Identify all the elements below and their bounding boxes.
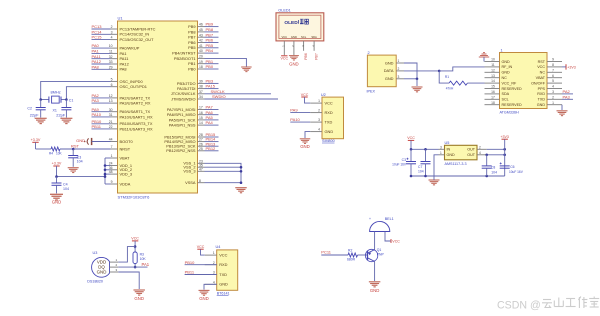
svg-text:3: 3: [440, 145, 442, 149]
svg-text:9: 9: [111, 180, 113, 184]
svg-text:10: 10: [491, 58, 495, 62]
pin GND (4) of U4: [205, 280, 228, 286]
capacitor C8 104: [486, 155, 488, 166]
svg-text:GND: GND: [289, 61, 299, 66]
inductor R1 47nH: [449, 81, 467, 85]
svg-text:PA11: PA11: [92, 54, 102, 59]
svg-text:VCC: VCC: [219, 252, 227, 257]
svg-text:PA4: PA4: [206, 120, 214, 125]
wire VCC to R3: [134, 241, 136, 249]
svg-text:5: 5: [552, 79, 554, 83]
svg-text:2: 2: [479, 145, 481, 149]
wire C1 to ground: [65, 110, 67, 118]
wire net PB8: [205, 31, 219, 33]
wire net PA8: [92, 68, 111, 70]
svg-text:PB0: PB0: [206, 64, 214, 69]
svg-text:PB5: PB5: [188, 45, 195, 50]
pin DATA (2) of IPEX: [384, 67, 404, 73]
wire net PB12: [205, 150, 219, 152]
svg-text:TXD: TXD: [325, 119, 333, 124]
wire net PA12: [92, 63, 111, 65]
svg-text:15: 15: [199, 116, 203, 120]
junction OUT1: [503, 148, 506, 151]
svg-text:9: 9: [552, 58, 554, 62]
pin PA10/USART1_RX (31) of U1: [109, 113, 153, 119]
svg-text:27: 27: [199, 138, 203, 142]
svg-text:GND: GND: [447, 153, 456, 157]
wire U2 GND: [305, 132, 310, 138]
svg-text:OLED1: OLED1: [278, 8, 290, 12]
junction rail C7: [424, 175, 427, 178]
svg-text:+3.3V: +3.3V: [31, 138, 41, 142]
svg-text:VCC_RF: VCC_RF: [502, 81, 517, 85]
svg-text:12: 12: [109, 94, 113, 98]
svg-text:SDA: SDA: [502, 92, 510, 96]
wire net PB6: [205, 42, 219, 44]
wire net PA3: [92, 102, 111, 104]
pin GND (4) of U2: [310, 128, 333, 134]
svg-text:7: 7: [552, 68, 554, 72]
svg-text:PA12: PA12: [120, 61, 129, 66]
wire SWDIO: [205, 98, 279, 100]
svg-text:VCC: VCC: [197, 245, 205, 249]
resistor R3 10K: [133, 247, 137, 268]
junction rail C8: [485, 175, 488, 178]
svg-text:VCC: VCC: [131, 237, 139, 241]
svg-text:RST: RST: [538, 60, 546, 64]
wire VSS bus to ground: [205, 163, 242, 182]
svg-text:VDD_3: VDD_3: [120, 172, 133, 177]
svg-text:PB8: PB8: [188, 29, 195, 34]
svg-text:1: 1: [440, 151, 442, 155]
svg-text:8MHz: 8MHz: [51, 90, 61, 95]
svg-text:1: 1: [213, 251, 215, 255]
svg-text:PA3: PA3: [92, 98, 100, 103]
pin PB7 (43) of U1: [188, 33, 204, 39]
pin GND (1) of U5: [439, 151, 456, 157]
svg-text:26: 26: [199, 142, 203, 146]
junction IPEX GND: [416, 78, 419, 81]
svg-text:13: 13: [491, 74, 495, 78]
svg-text:PB10: PB10: [185, 260, 196, 265]
ground at IPEX: [412, 87, 423, 92]
svg-text:U2: U2: [321, 93, 326, 97]
wire crystal left: [41, 99, 49, 101]
svg-text:RESERVED: RESERVED: [502, 87, 523, 91]
wire L1 to VCC_RF: [467, 82, 484, 84]
pin VSS_2 (35) of U1: [183, 163, 204, 169]
svg-text:22pF: 22pF: [56, 112, 65, 117]
ground at C1: [60, 118, 72, 123]
pin VCC (8) of GPS: [537, 63, 562, 69]
pin SCL (17) of GPS: [485, 95, 509, 101]
svg-text:SCL: SCL: [301, 35, 307, 39]
wire net PB14: [205, 141, 219, 143]
svg-text:5: 5: [111, 78, 113, 82]
OLED module body: [276, 13, 324, 41]
svg-text:42: 42: [199, 39, 203, 43]
ground at VSS: [235, 188, 247, 193]
svg-text:GND: GND: [76, 138, 85, 143]
svg-text:GND: GND: [325, 129, 334, 134]
buzzer BEL1: [370, 221, 390, 231]
svg-text:DS18B20: DS18B20: [87, 279, 103, 283]
connector IPEX body: [367, 55, 396, 87]
svg-text:14: 14: [199, 121, 203, 125]
svg-text:33: 33: [109, 60, 113, 64]
svg-text:104: 104: [491, 170, 497, 174]
ground at GPS GND: [557, 111, 568, 116]
svg-text:VBAT: VBAT: [120, 155, 130, 160]
svg-text:GND: GND: [199, 296, 209, 301]
svg-text:U3: U3: [93, 251, 98, 255]
junction VSS_2: [240, 166, 243, 169]
ground at OLED: [289, 56, 299, 60]
svg-text:U1: U1: [118, 16, 124, 21]
capacitor C2: [36, 107, 46, 109]
pin BOOT0 (44) of U1: [109, 138, 134, 144]
svg-text:OUT: OUT: [467, 148, 476, 152]
svg-text:104: 104: [418, 169, 424, 173]
pin VBAT (6) of GPS: [536, 74, 562, 80]
op U1 body: [118, 21, 198, 193]
ground at GPS pin10: [479, 53, 489, 57]
junction VSSA: [240, 181, 243, 184]
pin PA7/SPI1_MOSI (17) of U1: [167, 106, 205, 112]
pin PC14/OSC32_IN (3) of U1: [111, 30, 150, 36]
pin OUT (2) of U5: [467, 145, 486, 151]
wire BOOT0: [92, 141, 111, 143]
svg-text:3: 3: [552, 90, 554, 94]
svg-text:R2: R2: [348, 248, 352, 252]
svg-text:PB4: PB4: [206, 48, 214, 53]
svg-text:8: 8: [552, 63, 554, 67]
pin RF_IN (11) of GPS: [485, 63, 513, 69]
svg-text:18: 18: [199, 65, 203, 69]
wire PB2/BOOT1 to ground: [205, 58, 247, 67]
svg-text:PA8: PA8: [120, 67, 127, 72]
svg-text:RXD: RXD: [325, 110, 333, 115]
svg-text:OLED: OLED: [284, 20, 298, 26]
capacitor C6 10uF: [500, 165, 510, 167]
pin PA15/JTDI (38) of U1: [177, 85, 205, 91]
wire IPEX gnd down: [416, 79, 418, 86]
svg-text:R3: R3: [140, 253, 144, 257]
wire net PB11: [185, 274, 217, 276]
pin PB5 (41) of U1: [188, 44, 204, 50]
junction VDD_3: [104, 173, 107, 176]
pin PPS (4) of GPS: [538, 85, 562, 91]
svg-text:ON/OFF: ON/OFF: [531, 81, 546, 85]
svg-text:RXD: RXD: [537, 92, 545, 96]
pin SCL (3) of OLED1: [301, 35, 307, 51]
svg-text:39: 39: [199, 80, 203, 84]
ground at C4: [50, 194, 63, 200]
pin TXD (3) of U4: [205, 271, 227, 277]
pin VDD (1) of U3: [97, 258, 118, 264]
pin PA0/WKUP (10) of U1: [109, 44, 140, 50]
pin NRST (7) of U1: [111, 145, 131, 151]
svg-text:GND: GND: [502, 60, 511, 64]
svg-text:GND: GND: [291, 35, 297, 39]
svg-text:PB11: PB11: [185, 270, 195, 275]
wire net PA11: [92, 58, 111, 60]
svg-text:PB1: PB1: [188, 61, 195, 66]
svg-text:6: 6: [552, 74, 554, 78]
svg-text:13: 13: [109, 99, 113, 103]
pin PA4/SPI1_NSS (14) of U1: [169, 121, 205, 127]
pin PA1 (11) of U1: [109, 50, 127, 56]
wire net PB9: [205, 26, 219, 28]
svg-text:C6: C6: [510, 165, 514, 169]
svg-text:16: 16: [199, 111, 203, 115]
pin PB15/SPI2_MOSI (28) of U1: [164, 133, 204, 139]
svg-text:3: 3: [111, 30, 113, 34]
pin VSS_1 (23) of U1: [183, 159, 204, 165]
capacitor C5 at BOOT0: [84, 138, 92, 145]
svg-text:+3V3: +3V3: [567, 65, 576, 69]
pin GND (3) of IPEX: [385, 75, 404, 81]
wire C3e bottom: [410, 164, 412, 176]
ground at C2: [35, 118, 47, 123]
svg-text:38: 38: [199, 85, 203, 89]
wire net PA6: [205, 114, 219, 116]
svg-text:GND: GND: [97, 269, 107, 274]
svg-text:PB12: PB12: [206, 146, 217, 151]
svg-text:C2: C2: [27, 106, 32, 110]
svg-text:30: 30: [109, 108, 113, 112]
ground at U4: [199, 290, 210, 295]
svg-text:11: 11: [491, 63, 495, 67]
svg-text:GND: GND: [52, 199, 62, 204]
svg-text:PA3/USART2_RX: PA3/USART2_RX: [120, 101, 151, 106]
resistor R4 10K: [51, 147, 60, 151]
svg-text:C8: C8: [491, 166, 495, 170]
svg-text:11: 11: [109, 50, 113, 54]
svg-text:3: 3: [318, 118, 320, 122]
wire net PB1: [205, 63, 219, 65]
junction C3e top: [410, 148, 413, 151]
svg-text:2: 2: [111, 25, 113, 29]
pin RXD (3) of GPS: [537, 90, 562, 96]
pin VCC (1) of U2: [310, 99, 333, 105]
pin VCC (1) of OLED1: [281, 35, 287, 55]
pin RXD (2) of U4: [205, 261, 228, 267]
svg-text:PC14/OSC32_IN: PC14/OSC32_IN: [120, 32, 150, 37]
pin VCC_RF (14) of GPS: [485, 79, 517, 85]
ground at PB2: [241, 67, 252, 72]
svg-text:22: 22: [109, 125, 113, 129]
pin PA2/USART2_TX (12) of U1: [109, 94, 151, 100]
pin SDA (16) of GPS: [485, 90, 510, 96]
wire net PC14: [92, 33, 111, 35]
wire net PB15: [205, 136, 219, 138]
pin PA6/SPI1_MISO (16) of U1: [167, 111, 205, 117]
svg-text:47nH: 47nH: [446, 86, 454, 90]
svg-text:PA11: PA11: [120, 56, 129, 61]
watermark CJK glyphs: [542, 297, 599, 309]
pin RXD (2) of U2: [310, 109, 333, 115]
svg-text:PA4/SPI1_NSS: PA4/SPI1_NSS: [169, 123, 196, 128]
svg-text:PA10/USART1_RX: PA10/USART1_RX: [120, 114, 154, 119]
svg-text:680R: 680R: [347, 257, 356, 261]
svg-text:PB9: PB9: [206, 22, 214, 27]
pin PB0 (18) of U1: [188, 65, 204, 71]
wire net PA7: [205, 109, 219, 111]
wire net PB7: [205, 36, 219, 38]
wire input rail: [411, 148, 439, 150]
wire to C4: [56, 177, 58, 183]
svg-text:PC15: PC15: [92, 35, 103, 40]
svg-text:PC14: PC14: [92, 29, 103, 34]
svg-text:R4: R4: [49, 152, 53, 156]
wire GPS pin10 ground: [483, 57, 485, 62]
wire net PA15: [205, 88, 219, 90]
wire GPS GND: [561, 105, 563, 110]
wire U4 GND: [204, 284, 217, 289]
pin PA9/USART1_TX (30) of U1: [109, 108, 151, 114]
svg-text:19: 19: [199, 60, 203, 64]
svg-text:NRST: NRST: [120, 146, 131, 151]
svg-text:PC15/OSC32_OUT: PC15/OSC32_OUT: [120, 37, 155, 42]
pin GND (12) of GPS: [485, 68, 511, 74]
svg-text:2: 2: [213, 261, 215, 265]
svg-text:PA9: PA9: [290, 108, 298, 113]
svg-text:VCC: VCC: [392, 239, 400, 243]
capacitor C3 10uF input: [410, 149, 412, 161]
wire net PB10: [92, 123, 111, 125]
svg-text:PB12/SPI2_NSS: PB12/SPI2_NSS: [166, 148, 196, 153]
svg-text:VSSA: VSSA: [185, 180, 196, 185]
ground at Q1: [369, 282, 381, 287]
pin PB8 (45) of U1: [188, 28, 204, 34]
wire net PC13: [92, 28, 111, 30]
junction C4: [55, 175, 58, 178]
svg-text:4: 4: [479, 151, 481, 155]
wire net PA2: [92, 97, 111, 99]
junction C7 top: [424, 148, 427, 151]
svg-text:15: 15: [491, 85, 495, 89]
pin PA12 (33) of U1: [109, 60, 129, 66]
svg-text:3: 3: [398, 75, 400, 79]
pin TXD (3) of U2: [310, 118, 332, 124]
capacitor C1: [61, 107, 71, 109]
wire net PB5: [205, 47, 219, 49]
svg-text:BT6141: BT6141: [217, 292, 230, 296]
wire net PA9: [92, 111, 111, 113]
pin PA5/SPI1_SCK (15) of U1: [169, 116, 205, 122]
svg-text:45: 45: [199, 28, 203, 32]
pin RESERVED (18) of GPS: [485, 101, 523, 107]
pin GND (1) of IPEX: [385, 59, 404, 65]
svg-text:GND: GND: [385, 76, 394, 81]
svg-text:10: 10: [109, 44, 113, 48]
svg-text:PA1: PA1: [120, 51, 127, 56]
svg-text:PB7: PB7: [314, 53, 318, 60]
wire buzzer left leg: [374, 232, 376, 250]
svg-text:ATGM336H: ATGM336H: [500, 111, 520, 115]
wire net PA5: [205, 119, 219, 121]
svg-text:32: 32: [109, 55, 113, 59]
svg-text:2: 2: [318, 109, 320, 113]
svg-text:PA2: PA2: [563, 89, 571, 94]
svg-text:44: 44: [109, 138, 113, 142]
svg-text:10uF 16V: 10uF 16V: [509, 170, 524, 174]
svg-text:PA8: PA8: [92, 64, 100, 69]
pin PB10/USART3_TX (21) of U1: [109, 120, 153, 126]
wire VCC U2: [305, 97, 311, 103]
pin JTCK/SWCLK (37) of U1: [171, 90, 205, 96]
svg-text:OSC_IN/PD0: OSC_IN/PD0: [120, 79, 144, 84]
wire OUT rail second: [487, 154, 505, 156]
svg-text:14: 14: [491, 79, 495, 83]
svg-text:7: 7: [111, 145, 113, 149]
svg-text:41: 41: [199, 44, 203, 48]
wire crystal right: [61, 99, 66, 101]
pin VDD_3 (48) of U1: [109, 170, 132, 176]
junction crystal left: [39, 98, 42, 101]
wire VDD bus: [104, 158, 106, 184]
wire PC11 to R2: [321, 254, 348, 256]
svg-text:PB6: PB6: [304, 53, 308, 60]
svg-text:IPEX: IPEX: [367, 90, 376, 94]
resistor R2 680R: [348, 253, 358, 257]
ground at regulator: [429, 180, 440, 185]
svg-text:3: 3: [213, 271, 215, 275]
wire DATA to RF_IN: [439, 67, 484, 71]
svg-text:40: 40: [199, 49, 203, 53]
svg-text:37: 37: [199, 90, 203, 94]
pin PB13/SPI2_SCK (26) of U1: [166, 142, 204, 148]
svg-text:GND: GND: [370, 288, 380, 293]
pin PB14/SPI2_MISO (27) of U1: [164, 138, 204, 144]
svg-text:PB11/USART3_RX: PB11/USART3_RX: [120, 126, 154, 131]
wire C3 to ground: [72, 158, 74, 167]
svg-text:GND: GND: [385, 60, 394, 65]
svg-text:TXD: TXD: [538, 98, 546, 102]
svg-text:C1: C1: [69, 98, 74, 102]
svg-text:VBAT: VBAT: [536, 76, 546, 80]
pin VCC (1) of U4: [205, 251, 228, 257]
wire R4 to NRST: [60, 148, 111, 150]
pin PB11/USART3_RX (22) of U1: [109, 125, 153, 131]
power flag VCC buzzer: [390, 239, 392, 243]
svg-text:PA1: PA1: [92, 49, 100, 54]
wire net PB4: [205, 52, 219, 54]
capacitor C7 104: [425, 149, 427, 161]
svg-text:PPS: PPS: [538, 87, 546, 91]
svg-text:Q1: Q1: [377, 248, 382, 252]
pin TXD (2) of GPS: [538, 95, 562, 101]
svg-text:PB11: PB11: [92, 124, 102, 129]
junction DQ: [134, 266, 137, 269]
wire SWCLK: [205, 93, 272, 95]
svg-text:DATA: DATA: [384, 68, 394, 73]
svg-text:VSS_3: VSS_3: [183, 169, 195, 174]
svg-text:12: 12: [491, 68, 495, 72]
svg-text:JTMS/SWDIO: JTMS/SWDIO: [171, 96, 195, 101]
svg-text:18: 18: [491, 101, 495, 105]
svg-text:VCC: VCC: [537, 65, 545, 69]
pin OSC_OUT/PD1 (6) of U1: [111, 83, 147, 89]
wire ground rail: [411, 175, 505, 177]
svg-text:BOOT0: BOOT0: [120, 139, 134, 144]
wire C2 to ground: [40, 110, 42, 118]
wire collector to ground: [374, 261, 376, 281]
pin IN (3) of U5: [439, 145, 451, 151]
pin VSSA (8) of U1: [185, 179, 204, 185]
svg-text:PA0/WKUP: PA0/WKUP: [120, 46, 140, 51]
